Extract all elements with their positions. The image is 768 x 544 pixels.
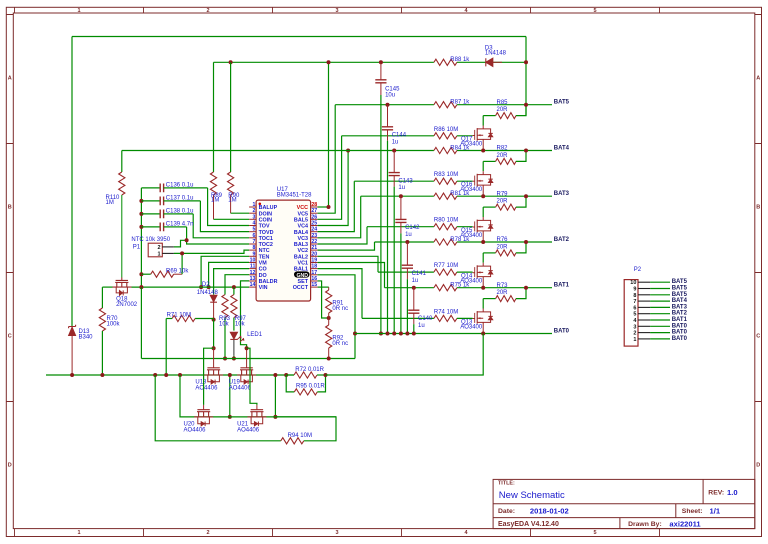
capacitor C144 1u (386, 103, 390, 107)
node BAT5 junctions (524, 103, 528, 107)
svg-text:10k: 10k (235, 321, 246, 327)
svg-text:5: 5 (593, 530, 596, 536)
node R72 right junction (324, 373, 328, 377)
svg-text:BAT4: BAT4 (672, 298, 688, 304)
svg-text:DO: DO (259, 273, 267, 279)
wire cap common vertical x=141.4 (140, 188, 142, 287)
svg-text:C143: C143 (398, 178, 413, 184)
pin 28 VCC (311, 206, 318, 208)
svg-text:Sheet:: Sheet: (682, 508, 703, 515)
resistor R72 0.01R (284, 373, 288, 377)
svg-text:12: 12 (250, 270, 256, 276)
wire signal rail y=358.5 (141, 358, 328, 360)
svg-text:0R nc: 0R nc (332, 341, 348, 347)
resistor R86 10M (434, 133, 457, 139)
node D2-R71 junction (212, 318, 216, 322)
svg-text:BAT2: BAT2 (672, 311, 688, 317)
P2 pin 1 (638, 338, 650, 340)
svg-text:TOVD: TOVD (259, 230, 274, 236)
pin 3 COIN (249, 218, 256, 220)
svg-text:BAT5: BAT5 (672, 286, 688, 292)
svg-text:R83 10M: R83 10M (434, 172, 458, 178)
P2 pin 3 (638, 325, 650, 327)
resistor R69 10k (139, 272, 143, 276)
svg-text:BALDR: BALDR (259, 279, 278, 285)
svg-text:1: 1 (633, 337, 636, 343)
wire DO pin12 (225, 275, 249, 295)
resistor R76 20R (483, 252, 495, 254)
pin 2 DOIN (249, 212, 256, 214)
transistor U19 AO4406 (246, 348, 248, 368)
LED LED1 (230, 332, 237, 339)
transistor Q15 AO3400 (482, 207, 484, 217)
svg-text:1: 1 (77, 8, 80, 14)
wire VC4 pin to row (318, 151, 349, 226)
svg-text:D: D (8, 462, 12, 468)
pin 18 BAL1 (311, 268, 318, 270)
svg-text:VC3: VC3 (298, 236, 309, 242)
wire U18/U19 segment (286, 374, 294, 376)
P2 pin 10 (638, 281, 650, 283)
resistor R82 20R (483, 160, 495, 162)
resistor R75 1k (434, 285, 457, 291)
svg-text:axi22011: axi22011 (669, 519, 701, 528)
wire BAT0 row (355, 333, 552, 335)
pin 20 BAL2 (311, 255, 318, 257)
pin 26 BAL5 (311, 218, 318, 220)
P2 pin 8 (638, 294, 650, 296)
svg-text:B: B (756, 204, 760, 210)
svg-text:1u: 1u (418, 323, 425, 329)
svg-text:24: 24 (311, 227, 317, 233)
svg-text:20: 20 (311, 251, 317, 257)
svg-text:Drawn By:: Drawn By: (628, 521, 662, 528)
capacitor C141 1u (405, 240, 409, 244)
svg-text:8: 8 (633, 293, 636, 299)
resistor R91 0R nc (318, 286, 329, 288)
svg-text:AO4406: AO4406 (237, 427, 260, 433)
svg-text:C137 0.1u: C137 0.1u (166, 195, 194, 201)
svg-text:2: 2 (158, 245, 161, 251)
wire U19 gate bracket (245, 346, 249, 350)
pin 25 VC4 (311, 225, 318, 227)
svg-text:2: 2 (633, 331, 636, 337)
svg-text:R82: R82 (497, 146, 509, 152)
resistor R73 20R (483, 298, 495, 300)
wire VC2 pin to row (318, 242, 375, 250)
node LED1 to signal wire (232, 357, 236, 361)
svg-text:P1: P1 (133, 244, 141, 250)
svg-text:R71 10M: R71 10M (167, 312, 191, 318)
title block (493, 479, 755, 528)
svg-text:AO3400: AO3400 (460, 324, 483, 330)
P2 pin 4 (638, 319, 650, 321)
node BAT3 junctions (481, 194, 485, 198)
svg-text:BAT5: BAT5 (672, 279, 688, 285)
wire C138 to TOC1 pin6 (193, 214, 249, 238)
wire VC3 pin to row (318, 196, 361, 238)
transistor Q13 AO3400 (482, 299, 484, 309)
op-amp U17 BM3451-T28 body (256, 200, 311, 301)
P2 pin 6 (638, 306, 650, 308)
svg-text:28: 28 (311, 202, 317, 208)
svg-text:R73: R73 (497, 283, 509, 289)
node BAT4 junctions (481, 149, 485, 153)
svg-text:BAT1: BAT1 (554, 283, 570, 289)
svg-text:VC5: VC5 (298, 211, 309, 217)
svg-text:Date:: Date: (498, 508, 515, 515)
svg-text:AO4406: AO4406 (229, 385, 252, 391)
wire left pack+ drop to D13 (71, 37, 73, 327)
svg-text:C138 0.1u: C138 0.1u (166, 208, 194, 214)
svg-text:3: 3 (633, 324, 636, 330)
svg-text:20R: 20R (497, 199, 509, 205)
capacitor C140 1u (412, 286, 416, 290)
wire CO pin11 (214, 269, 250, 295)
wire BAT5 row (335, 104, 434, 106)
svg-text:BAT5: BAT5 (672, 292, 688, 298)
wire U20 left riser (180, 375, 194, 417)
svg-text:C: C (756, 333, 760, 339)
svg-text:16: 16 (311, 276, 317, 282)
svg-text:New Schematic: New Schematic (499, 490, 565, 501)
svg-text:B: B (8, 204, 12, 210)
svg-text:D2: D2 (202, 282, 210, 288)
wire VCC riser (328, 62, 330, 207)
resistor R92 0R nc (328, 318, 330, 325)
node rail junctions (70, 373, 74, 377)
wire P2 pin 6 BAT3 (650, 306, 670, 308)
wire Q18 drain drop (140, 287, 142, 358)
svg-text:BALUP: BALUP (259, 205, 278, 211)
wire C139 to TOC2 pin7 (187, 227, 250, 244)
svg-text:VIN: VIN (259, 285, 268, 291)
diode D3 1N4148 (486, 58, 493, 66)
P2 pin 9 (638, 288, 650, 290)
resistor R93 10k (222, 295, 228, 318)
svg-text:2N7002: 2N7002 (116, 302, 138, 308)
wire P2 pin 9 BAT5 (650, 288, 670, 290)
pin 23 VC3 (311, 237, 318, 239)
svg-text:1: 1 (77, 530, 80, 536)
P1 pin 1 (162, 252, 174, 254)
svg-text:VM: VM (259, 261, 268, 267)
svg-text:BAT2: BAT2 (554, 237, 570, 243)
capacitor C142 1u (399, 194, 403, 198)
svg-text:COIN: COIN (259, 217, 273, 223)
svg-text:EasyEDA V4.12.40: EasyEDA V4.12.40 (498, 521, 559, 528)
pin 4 TOV (249, 225, 256, 227)
svg-text:2: 2 (253, 208, 256, 214)
svg-text:20R: 20R (497, 244, 509, 250)
connector P1 NTC (148, 243, 162, 257)
svg-text:DOIN: DOIN (259, 211, 273, 217)
svg-text:1.0: 1.0 (727, 488, 738, 497)
capacitor C137 0.1u (139, 199, 143, 203)
svg-text:P2: P2 (634, 267, 642, 273)
svg-text:OCCT: OCCT (293, 285, 309, 291)
svg-text:BAT5: BAT5 (554, 100, 570, 106)
pin 24 BAL4 (311, 231, 318, 233)
svg-text:20R: 20R (497, 107, 509, 113)
svg-text:VC4: VC4 (298, 224, 309, 230)
wire BAL4 pin to row (318, 181, 355, 231)
svg-text:10k: 10k (219, 321, 230, 327)
wire BAL5/R86 row (342, 135, 434, 137)
pin 27 VC5 (311, 212, 318, 214)
svg-text:R86 10M: R86 10M (434, 127, 458, 133)
svg-text:C139 4.7n: C139 4.7n (166, 221, 194, 227)
svg-text:0R nc: 0R nc (332, 306, 348, 312)
node VCC-D3 junction (524, 60, 528, 64)
wire VM pin10 (209, 262, 250, 287)
pin 6 TOC1 (249, 237, 256, 239)
pin 7 TOC2 (249, 243, 256, 245)
svg-text:7: 7 (633, 299, 636, 305)
resistor R87 1k (434, 102, 457, 108)
pin 13 BALDR (249, 280, 256, 282)
pin 17 GND (311, 274, 318, 276)
svg-text:1M: 1M (106, 200, 114, 206)
svg-text:25: 25 (311, 220, 317, 226)
svg-text:4: 4 (253, 220, 256, 226)
svg-text:19: 19 (311, 257, 317, 263)
svg-text:D: D (756, 462, 760, 468)
svg-text:R78 1k: R78 1k (450, 237, 470, 243)
svg-text:10: 10 (630, 280, 636, 286)
svg-text:3: 3 (253, 214, 256, 220)
svg-text:20R: 20R (497, 153, 509, 159)
svg-text:BAT0: BAT0 (672, 336, 688, 342)
wire P2 pin 8 BAT5 (650, 294, 670, 296)
node BAT1 junctions (481, 286, 485, 290)
svg-text:CO: CO (259, 267, 267, 273)
resistor R90 1M (229, 60, 233, 64)
wire GND pin17 to BAT0 (318, 275, 355, 359)
svg-text:7: 7 (253, 239, 256, 245)
svg-text:21: 21 (311, 245, 317, 251)
transistor Q14 AO3400 (482, 253, 484, 263)
pin 15 OCCT (311, 286, 318, 288)
svg-text:BAT0: BAT0 (554, 328, 570, 334)
svg-text:26: 26 (311, 214, 317, 220)
svg-text:C141: C141 (412, 271, 427, 277)
wire BAT4 row (122, 150, 434, 152)
pin 21 VC2 (311, 249, 318, 251)
svg-text:8: 8 (253, 245, 256, 251)
wire VIN pin14 row (102, 286, 112, 288)
svg-text:17: 17 (311, 270, 317, 276)
svg-text:11: 11 (250, 264, 256, 270)
svg-text:1M: 1M (211, 198, 219, 204)
wire lower FET S/D rail (194, 416, 336, 418)
svg-text:R87 1k: R87 1k (450, 100, 470, 106)
wire VC1 pin to row (318, 262, 385, 287)
diode D2 1N4148 (210, 295, 217, 302)
svg-text:15: 15 (311, 282, 317, 288)
wire BAL3/R80 row (367, 226, 434, 228)
wire CO net down to U18 gate (213, 320, 215, 349)
node BAT0 junctions (481, 332, 485, 336)
svg-text:1: 1 (253, 202, 256, 208)
wire P2 pin 4 BAT1 (650, 319, 670, 321)
wire BAL4/R83 row (354, 180, 434, 182)
svg-text:BAT0: BAT0 (672, 323, 688, 329)
svg-text:AO4406: AO4406 (184, 427, 207, 433)
svg-text:R75 1k: R75 1k (450, 283, 470, 289)
wire P2 pin 5 BAT2 (650, 313, 670, 315)
svg-text:R72 0.01R: R72 0.01R (295, 367, 324, 373)
svg-text:BAL5: BAL5 (294, 217, 308, 223)
pin 10 VM (249, 262, 256, 264)
wire BAL2 pin to row (318, 256, 378, 272)
wire BAT3 row (361, 195, 434, 197)
svg-text:GND: GND (296, 273, 308, 279)
wire P2 pin 1 BAT0 (650, 338, 670, 340)
wire right drop to VCC row (525, 37, 527, 116)
resistor R84 1k (434, 147, 457, 153)
svg-text:2: 2 (206, 8, 209, 14)
svg-text:C: C (8, 333, 12, 339)
wire U21 right riser (274, 375, 276, 417)
svg-text:3: 3 (335, 8, 338, 14)
svg-text:SET: SET (298, 279, 309, 285)
svg-text:R81 1k: R81 1k (450, 191, 470, 197)
pin 19 VC1 (311, 262, 318, 264)
svg-text:9: 9 (633, 287, 636, 293)
svg-text:1u: 1u (412, 278, 419, 284)
capacitor C145 10u (379, 60, 383, 64)
P1 pin 2 (162, 246, 174, 248)
pin 14 VIN (249, 286, 256, 288)
transistor Q17 AO3400 (482, 116, 484, 126)
resistor R85 20R (483, 115, 495, 117)
svg-text:1u: 1u (392, 139, 399, 145)
svg-text:BAT0: BAT0 (672, 330, 688, 336)
node BAT2 junctions (481, 240, 485, 244)
wire sense rail to BAT0 (326, 334, 484, 376)
svg-text:R74 10M: R74 10M (434, 309, 458, 315)
svg-text:6: 6 (253, 233, 256, 239)
svg-text:2018-01-02: 2018-01-02 (530, 506, 569, 515)
wire R94 return loop (155, 375, 281, 441)
svg-text:1N4148: 1N4148 (485, 50, 507, 56)
capacitor C138 0.1u (139, 212, 143, 216)
resistor R80 10M (434, 224, 457, 230)
svg-text:LED1: LED1 (247, 332, 263, 338)
svg-text:VC1: VC1 (298, 261, 309, 267)
resistor R83 10M (434, 178, 457, 184)
wire P1.2 to TOC2 net (174, 240, 187, 247)
svg-text:1/1: 1/1 (710, 506, 721, 515)
svg-text:1: 1 (158, 252, 161, 258)
svg-text:9: 9 (253, 251, 256, 257)
wire BAT1 row (385, 287, 434, 289)
svg-text:2: 2 (206, 530, 209, 536)
svg-text:1u: 1u (398, 185, 405, 191)
wire P1.1 to NTC pin (174, 250, 249, 253)
wire C137 to TOVD pin5 (200, 201, 249, 232)
resistor R74 10M (434, 315, 457, 321)
resistor R70 100k (101, 287, 103, 308)
wire pack- main rail (46, 374, 286, 376)
svg-text:R80 10M: R80 10M (434, 218, 458, 224)
svg-text:BAL2: BAL2 (294, 254, 308, 260)
wire top pack+ rail (72, 36, 526, 38)
svg-text:5: 5 (253, 227, 256, 233)
svg-text:TITLE:: TITLE: (498, 481, 515, 487)
resistor R94 10M (281, 438, 304, 444)
capacitor C136 0.1u (141, 187, 160, 189)
svg-text:BAT1: BAT1 (672, 317, 688, 323)
wire P2 pin 10 BAT5 (650, 281, 670, 283)
svg-text:BAT3: BAT3 (554, 191, 570, 197)
pin 8 NTC (249, 249, 256, 251)
svg-text:VCC: VCC (297, 205, 308, 211)
wire BAL5 pin to row (318, 136, 342, 220)
svg-text:C144: C144 (392, 133, 407, 139)
wire P2 pin 2 BAT0 (650, 332, 670, 334)
wire U18 gate bracket to U20 (204, 348, 214, 405)
svg-text:R76: R76 (497, 237, 509, 243)
wire C136 to TOV pin4 (208, 188, 250, 226)
svg-text:R94 10M: R94 10M (288, 433, 312, 439)
svg-text:10: 10 (250, 257, 256, 263)
wire TEN pin9 (201, 256, 249, 287)
svg-text:20R: 20R (497, 290, 509, 296)
P2 pin 7 (638, 300, 650, 302)
svg-text:AO4406: AO4406 (195, 385, 218, 391)
svg-text:BAL3: BAL3 (294, 242, 308, 248)
svg-text:R85: R85 (497, 100, 509, 106)
svg-text:R88 1k: R88 1k (450, 57, 470, 63)
svg-text:C145: C145 (385, 86, 400, 92)
diode D13 B340 schottky (69, 325, 76, 329)
pin 1 BALUP (249, 206, 256, 208)
wire BAL1/R74 row (362, 317, 434, 319)
resistor R79 20R (483, 206, 495, 208)
svg-text:1u: 1u (405, 232, 412, 238)
svg-text:18: 18 (311, 264, 317, 270)
wire BAL1 pin to row (318, 269, 362, 319)
svg-text:TEN: TEN (259, 254, 270, 260)
pin 12 DO (249, 274, 256, 276)
wire P2 pin 7 BAT4 (650, 300, 670, 302)
svg-text:1M: 1M (228, 198, 236, 204)
svg-text:REV:: REV: (708, 490, 724, 497)
resistor R81 1k (434, 193, 457, 199)
svg-text:BM3451-T28: BM3451-T28 (277, 192, 312, 198)
transistor U18 AO4406 (213, 348, 215, 368)
resistor R71 10M (172, 315, 195, 321)
resistor R89 1M (213, 62, 215, 172)
resistor R88 1k (434, 59, 457, 65)
wire VCC pin28 (318, 206, 329, 208)
pin 9 TEN (249, 255, 256, 257)
svg-text:BAT3: BAT3 (672, 304, 688, 310)
svg-text:22: 22 (311, 239, 317, 245)
svg-text:C140: C140 (418, 316, 433, 322)
svg-text:A: A (756, 75, 760, 81)
svg-text:27: 27 (311, 208, 317, 214)
P2 pin 5 (638, 313, 650, 315)
pin 22 BAL3 (311, 243, 318, 245)
svg-text:TOC2: TOC2 (259, 242, 273, 248)
svg-text:A: A (8, 75, 12, 81)
wire BAL3 pin to row (318, 227, 367, 244)
capacitor C139 4.7n (139, 225, 143, 229)
svg-text:3: 3 (335, 530, 338, 536)
